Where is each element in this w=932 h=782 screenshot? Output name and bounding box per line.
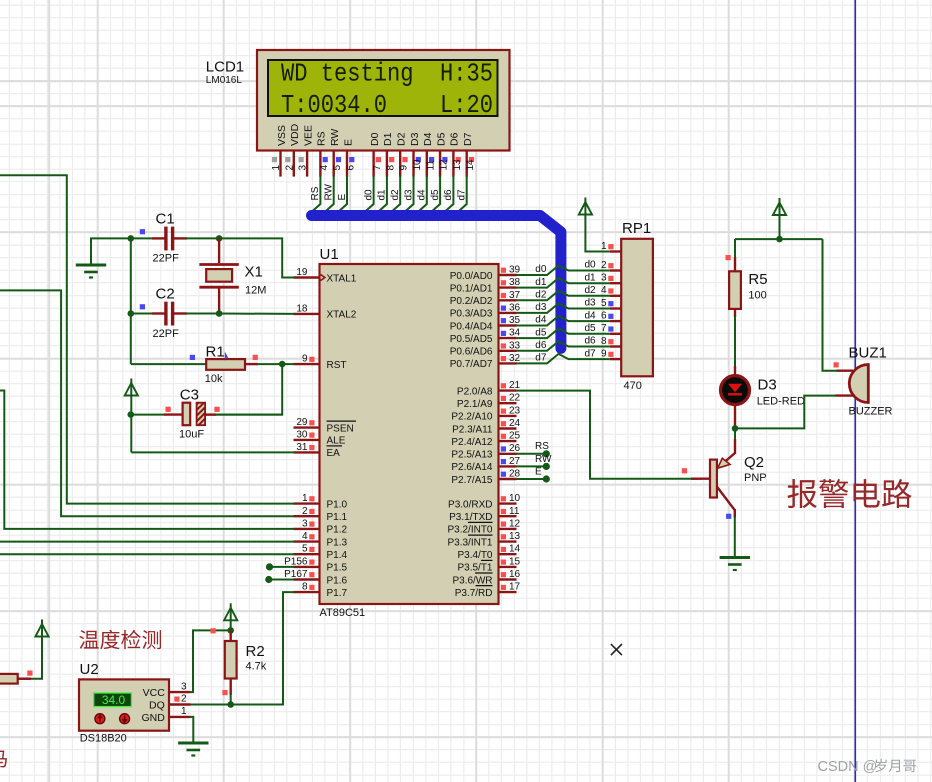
svg-text:d1: d1 [377,189,388,201]
svg-text:5: 5 [332,165,343,171]
svg-text:R2: R2 [246,643,265,660]
svg-text:d3: d3 [403,189,414,201]
svg-text:16: 16 [509,569,521,580]
LED D3 LED-RED [721,366,806,428]
wire P1.4 to left edge [0,553,295,555]
node R2 bottom / DQ junction [227,701,234,708]
LCD1 LM016L display module [206,50,510,151]
wire X1 bottom to XTAL2 pin 18 [219,313,294,315]
svg-text:4: 4 [319,165,330,171]
svg-text:P0.7/AD7: P0.7/AD7 [450,359,493,370]
U1 right pins: P0.0-P0.7(39-32), P2.0-P2.7(21-28), P3.0-P3.7(10-17) [447,265,520,599]
svg-text:P1.3: P1.3 [327,537,348,548]
svg-text:CSDN @: CSDN @ [818,759,878,775]
svg-text:1: 1 [271,165,282,171]
svg-text:32: 32 [509,353,521,364]
svg-text:P2.7/A15: P2.7/A15 [451,475,493,486]
svg-text:d0: d0 [585,260,597,271]
buzzer BUZ1 [834,345,893,418]
power arrow (VCC) above C3 rail [125,379,138,453]
sheet border (blue) [854,0,856,782]
svg-text:VCC: VCC [143,687,166,699]
svg-text:BUZZER: BUZZER [849,406,893,418]
wire buzzer bottom pin to LED junction [735,396,836,429]
wire P2.5 net RS terminal [517,441,550,457]
svg-text:Q2: Q2 [744,454,764,471]
svg-text:24: 24 [509,418,521,429]
svg-text:P156: P156 [284,556,308,567]
label temperature detection (Chinese) [79,630,161,649]
svg-text:P2.2/A10: P2.2/A10 [451,412,493,423]
wire P2.7 net E terminal [517,467,550,483]
svg-text:10uF: 10uF [179,429,204,441]
svg-text:27: 27 [509,456,521,467]
svg-text:12M: 12M [245,285,266,297]
LCD1 pins 1-14: stubs, numbers, state squares [271,151,476,177]
svg-text:C3: C3 [180,387,199,404]
svg-text:14: 14 [509,544,521,555]
svg-text:17: 17 [509,582,521,593]
svg-text:P3.2/INT0: P3.2/INT0 [447,525,492,536]
svg-text:RP1: RP1 [622,220,651,237]
svg-text:P0.3/AD3: P0.3/AD3 [450,309,493,320]
svg-text:9: 9 [601,349,607,360]
svg-text:EA: EA [327,448,341,459]
svg-text:PNP: PNP [744,472,767,484]
wire P1.1 to left edge [0,290,295,516]
svg-text:P2.4/A12: P2.4/A12 [451,437,493,448]
svg-text:RST: RST [327,360,347,371]
svg-text:U1: U1 [320,246,339,263]
svg-text:4: 4 [601,285,607,296]
svg-text:d6: d6 [443,189,454,201]
svg-text:E: E [535,467,542,478]
svg-text:3: 3 [181,681,187,692]
svg-text:35: 35 [509,315,521,326]
svg-text:X1: X1 [245,264,263,281]
svg-text:10: 10 [509,493,521,504]
svg-text:d7: d7 [457,189,468,201]
svg-text:P2.3/A11: P2.3/A11 [452,424,493,435]
wire VCC rail to R5 and buzzer [735,238,823,240]
transistor Q2 PNP [682,439,767,519]
svg-text:22: 22 [509,393,521,404]
svg-text:P1.1: P1.1 [327,512,348,523]
svg-text:2: 2 [601,260,607,271]
svg-text:LM016L: LM016L [206,75,243,86]
svg-text:P1.7: P1.7 [327,588,348,599]
svg-text:1: 1 [601,241,607,252]
svg-text:RS: RS [310,186,321,200]
svg-text:RS: RS [535,441,549,452]
svg-text:P3.0/RXD: P3.0/RXD [448,499,492,510]
svg-text:d4: d4 [535,315,547,326]
svg-text:30: 30 [296,429,308,440]
svg-text:2: 2 [284,165,295,171]
node LED bottom / emitter junction [732,425,739,432]
svg-text:DQ: DQ [149,700,165,712]
IC U1 AT89C51 microcontroller body [320,246,499,619]
node X1 bottom [216,310,223,317]
svg-text:2: 2 [181,694,187,705]
svg-text:P3.1/TXD: P3.1/TXD [449,512,492,523]
svg-text:R5: R5 [748,271,767,288]
svg-text:RW: RW [535,454,552,465]
node C1/C2 left rail junction [128,235,135,317]
resistor R5 100 [726,239,768,309]
svg-text:6: 6 [601,311,607,322]
ground (under Q2) [720,556,750,559]
svg-text:23: 23 [509,405,521,416]
svg-text:R1: R1 [206,344,225,361]
wire R1 to RST pin 9 [282,363,294,365]
U2 DS18B20 temperature sensor [79,661,169,745]
svg-text:d5: d5 [430,189,441,201]
svg-text:1: 1 [302,493,308,504]
resistor pack RP1 470 [621,220,653,392]
svg-text:P167: P167 [284,569,308,580]
svg-text:D1: D1 [382,132,394,146]
svg-text:RW: RW [329,129,341,146]
svg-text:21: 21 [509,380,521,391]
svg-text:9: 9 [302,354,308,365]
wire R5 to LED D3 [734,309,736,317]
node C3 left junction [128,411,135,418]
U2 pins 3,2,1 [169,681,191,717]
svg-text:P0.5/AD5: P0.5/AD5 [450,334,493,345]
svg-text:d2: d2 [390,189,401,201]
svg-text:DS18B20: DS18B20 [80,733,127,745]
svg-text:P2.6/A14: P2.6/A14 [451,462,493,473]
svg-text:D6: D6 [449,132,461,146]
U1 left pins: XTAL1(19), XTAL2(18), RST(9), PSEN(29), ALE(30), EA(31), P1.0-P1.7(1-8) [284,267,357,599]
svg-text:33: 33 [509,340,521,351]
svg-text:P3.3/INT1: P3.3/INT1 [447,537,492,548]
svg-text:25: 25 [509,431,521,442]
svg-text:GND: GND [141,712,165,724]
svg-text:RS: RS [316,131,328,146]
wire DQ rail [190,704,231,706]
svg-text:d3: d3 [585,298,597,309]
svg-text:d7: d7 [535,353,547,364]
power arrow (VCC) bottom-left [18,620,49,679]
svg-text:d6: d6 [585,336,597,347]
wire P1.7 down to DS18B20 DQ rail [231,592,295,704]
svg-text:4: 4 [302,531,308,542]
power arrow (VCC) alarm rail [773,198,786,239]
wire RST junction down to C3 [206,364,283,415]
svg-text:VDD: VDD [289,123,301,146]
svg-text:D7: D7 [462,132,474,146]
power arrow for RP1 pin1 [579,198,610,252]
svg-text:ALE: ALE [327,436,346,447]
svg-text:3: 3 [601,273,607,284]
partial resistor at left edge [0,671,33,684]
svg-text:T:0034.0 L:20: T:0034.0 L:20 [281,90,493,120]
svg-text:29: 29 [296,417,308,428]
svg-text:d0: d0 [535,264,547,275]
svg-text:100: 100 [748,290,766,302]
wire EA rail to pin 31 [131,451,294,453]
svg-text:PSEN: PSEN [327,423,354,434]
node R2 top junction [227,627,234,634]
svg-text:P2.0/A8: P2.0/A8 [457,386,493,397]
svg-text:P0.0/AD0: P0.0/AD0 [450,271,493,282]
resistor R1 10k [190,344,282,386]
svg-text:4.7k: 4.7k [246,661,267,673]
svg-text:AT89C51: AT89C51 [320,607,366,619]
svg-text:P1.4: P1.4 [327,550,348,561]
svg-text:E: E [342,139,354,146]
svg-text:P1.2: P1.2 [327,525,348,536]
wire C1 right to XTAL1 pin 19 [219,238,294,277]
svg-text:470: 470 [624,380,642,392]
svg-text:XTAL2: XTAL2 [327,310,357,321]
svg-text:13: 13 [452,159,463,171]
svg-text:13: 13 [509,531,521,542]
svg-text:22PF: 22PF [153,253,180,265]
svg-text:8: 8 [302,582,308,593]
svg-text:P1.0: P1.0 [327,499,348,510]
svg-text:5: 5 [601,298,607,309]
svg-text:U2: U2 [80,661,99,678]
svg-text:D0: D0 [369,132,381,146]
power arrow (VCC) for R2 [224,603,237,630]
svg-text:P0.4/AD4: P0.4/AD4 [450,321,493,332]
svg-text:d3: d3 [535,302,547,313]
svg-text:22PF: 22PF [153,328,180,340]
svg-text:P3.5/T1: P3.5/T1 [457,563,492,574]
wire P1.6 net P16 terminal [265,576,294,583]
svg-text:28: 28 [509,469,521,480]
RP1 pin 1 [601,241,621,252]
svg-text:31: 31 [296,442,308,453]
capacitor C1 22PF [131,211,219,265]
origin cross marker [611,644,622,655]
svg-text:39: 39 [509,265,521,276]
svg-text:2: 2 [302,506,308,517]
svg-text:18: 18 [296,303,308,314]
svg-text:C1: C1 [156,211,175,228]
svg-text:XTAL1: XTAL1 [327,273,357,284]
svg-text:10: 10 [412,159,423,171]
svg-text:VSS: VSS [276,125,288,146]
svg-text:8: 8 [385,165,396,171]
svg-text:11: 11 [509,506,520,517]
svg-text:WD testing H:35: WD testing H:35 [281,59,493,89]
crystal X1 12M [199,238,266,313]
svg-text:14: 14 [465,159,476,171]
svg-text:5: 5 [302,544,308,555]
svg-text:P3.4/T0: P3.4/T0 [457,550,492,561]
svg-text:P0.2/AD2: P0.2/AD2 [450,296,493,307]
svg-text:P3.7/RD: P3.7/RD [455,588,493,599]
svg-text:D2: D2 [396,132,408,146]
svg-text:34: 34 [509,328,521,339]
svg-text:RW: RW [324,183,335,200]
svg-text:P2.5/A13: P2.5/A13 [451,450,493,461]
svg-text:26: 26 [509,443,521,454]
svg-text:12: 12 [509,518,521,529]
ground (under U2) [178,742,208,745]
wire P2.0/A8 to Q2 base [517,391,702,479]
node VCC rail junction [776,236,783,243]
svg-text:P2.1/A9: P2.1/A9 [457,399,493,410]
wire VCC rail down to buzzer top pin [823,239,839,371]
svg-text:E: E [337,194,348,201]
svg-text:d2: d2 [585,285,597,296]
svg-text:d5: d5 [585,323,597,334]
svg-text:d4: d4 [585,310,597,321]
mouse cursor artifact above R1 [225,352,229,362]
wire P1.2 to left edge [0,391,295,529]
node RST junction [279,361,286,368]
svg-text:7: 7 [372,165,383,171]
svg-text:36: 36 [509,302,521,313]
svg-text:d2: d2 [535,290,547,301]
svg-text:P0.6/AD6: P0.6/AD6 [450,347,493,358]
svg-text:38: 38 [509,277,521,288]
blue data bus from LCD to RP1/U1 region [312,216,561,349]
wire R2 top to U2 VCC [190,630,231,692]
svg-text:d0: d0 [363,189,374,201]
svg-text:BUZ1: BUZ1 [849,345,887,362]
svg-text:9: 9 [399,165,410,171]
svg-text:LED-RED: LED-RED [757,396,805,408]
svg-text:6: 6 [346,165,357,171]
capacitor C3 10uF electrolytic [131,387,282,441]
wire Q2 collector to ground [734,517,736,557]
node X1 top [216,235,223,242]
wire P1.5 net P15 terminal [266,563,295,570]
svg-text:d1: d1 [585,272,597,283]
svg-text:LCD1: LCD1 [206,59,244,76]
svg-text:C2: C2 [156,286,175,303]
svg-text:P3.6/WR: P3.6/WR [452,575,492,586]
wires d0-d7: U1 P0 port through bus to RP1 pins 2-9 [517,260,610,364]
svg-text:D3: D3 [758,377,777,394]
svg-text:d5: d5 [535,327,547,338]
svg-text:d1: d1 [535,277,547,288]
svg-text:D4: D4 [422,132,434,146]
svg-text:d4: d4 [417,189,428,201]
wire P1.3 to left edge [0,541,295,543]
svg-text:d6: d6 [535,340,547,351]
label alarm circuit (Chinese) [788,479,912,508]
svg-text:19: 19 [296,267,308,278]
wire left rail C1-C2-R1 [130,238,132,364]
svg-text:D3: D3 [409,132,421,146]
svg-text:15: 15 [509,556,521,567]
svg-text:8: 8 [601,336,607,347]
svg-text:d7: d7 [585,348,597,359]
svg-text:10k: 10k [205,373,223,385]
partial Chinese character at bottom-left edge [0,751,7,768]
svg-text:11: 11 [425,160,436,171]
capacitor C2 22PF [131,286,219,341]
svg-text:D5: D5 [435,132,447,146]
svg-text:P1.5: P1.5 [327,563,348,574]
svg-text:VEE: VEE [302,125,314,146]
svg-text:1: 1 [181,706,187,717]
wires from LCD pins 4-14 down into bus, with net labels RS RW E d0-d7 [310,176,467,213]
wire U2 GND pin to ground [190,717,193,742]
ground (near C1) [76,238,131,277]
svg-text:3: 3 [302,518,308,529]
svg-text:P1.6: P1.6 [327,575,348,586]
svg-text:12: 12 [439,159,450,171]
svg-text:34.0: 34.0 [102,693,126,707]
wire P2.6 net RW terminal [517,454,553,470]
resistor R2 4.7k [222,630,266,704]
svg-text:37: 37 [509,290,521,301]
svg-text:P0.1/AD1: P0.1/AD1 [450,283,493,294]
svg-text:7: 7 [601,323,607,334]
svg-text:3: 3 [298,165,309,171]
RP1 pins 2-9 [601,260,621,360]
wire P1.0 to left edge [0,175,295,503]
